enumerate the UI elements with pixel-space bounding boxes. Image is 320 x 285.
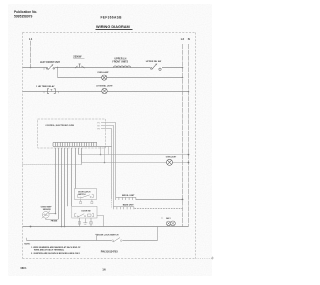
svg-text:DOOR SW: DOOR SW bbox=[82, 211, 91, 213]
svg-text:240 V: 240 V bbox=[166, 217, 171, 220]
frame border dashed bbox=[23, 33, 196, 259]
relay K1 contact bbox=[36, 85, 59, 93]
connector drop wires left bbox=[56, 148, 82, 227]
node L2 bbox=[181, 37, 185, 227]
sensor RT1 oven sensor bbox=[41, 207, 59, 223]
lamp DS1 bbox=[97, 71, 109, 80]
lamp DS2 bbox=[96, 84, 113, 93]
bake feed dashes bbox=[111, 200, 113, 208]
publication number text bbox=[14, 10, 37, 18]
svg-text:5995358979: 5995358979 bbox=[14, 14, 33, 18]
wire W5 bbox=[79, 154, 190, 156]
connector J1 comb bbox=[53, 143, 112, 147]
comb right drop wires bbox=[101, 147, 109, 163]
wire W2 second row bbox=[58, 77, 183, 79]
svg-text:UPPER RH SW: UPPER RH SW bbox=[146, 61, 162, 63]
box B1 latch switch block bbox=[75, 189, 97, 204]
box B2 door switch block bbox=[72, 206, 104, 226]
svg-text:SWITCH: SWITCH bbox=[78, 194, 86, 196]
svg-text:FEF366ASB: FEF366ASB bbox=[101, 16, 123, 20]
svg-text:WIRING DIAGRAM: WIRING DIAGRAM bbox=[96, 25, 130, 29]
svg-text:N: N bbox=[188, 37, 190, 41]
wire W1 top row bbox=[23, 67, 183, 69]
junction W1/L2 bbox=[182, 67, 184, 69]
svg-text:UPPER LH: UPPER LH bbox=[115, 59, 127, 61]
svg-text:BROIL UNIT: BROIL UNIT bbox=[122, 195, 135, 197]
svg-text:*: * bbox=[162, 217, 163, 220]
cut line extension bbox=[196, 258, 213, 260]
pin labels bbox=[98, 122, 100, 130]
wire W7 bottom row bbox=[23, 226, 189, 228]
svg-text:SENSOR: SENSOR bbox=[43, 209, 51, 211]
element E1 small surface unit bbox=[73, 55, 84, 69]
svg-text:2350W: 2350W bbox=[73, 55, 82, 59]
element E3 broil bbox=[116, 195, 184, 201]
svg-text:FRONT UNITS: FRONT UNITS bbox=[112, 62, 128, 64]
scan noise overlay bbox=[8, 4, 212, 276]
EOC control box U1 bbox=[38, 119, 106, 148]
svg-text:LEFT FRONT UNIT: LEFT FRONT UNIT bbox=[40, 62, 60, 64]
switch S1 surface unit switch bbox=[40, 62, 60, 70]
svg-text:L2: L2 bbox=[181, 37, 185, 41]
svg-text:1. WIRE NUMBERS ARE MARKED AT: 1. WIRE NUMBERS ARE MARKED AT EACH END O… bbox=[31, 246, 81, 249]
element coil E2 rear unit bbox=[112, 59, 130, 68]
svg-text:* DOOR LOCK SWITCH: * DOOR LOCK SWITCH bbox=[96, 235, 119, 237]
node L1 bbox=[29, 37, 33, 68]
svg-text:OVEN LAMP: OVEN LAMP bbox=[97, 71, 109, 74]
node N bbox=[188, 37, 190, 227]
title WIRING DIAGRAM bbox=[96, 25, 133, 30]
wire W3 third row bbox=[23, 91, 189, 93]
door switch loop W8 bbox=[27, 227, 158, 243]
twin indicator lamps bbox=[162, 217, 176, 226]
svg-text:1 HR TIME DELAY: 1 HR TIME DELAY bbox=[36, 85, 55, 88]
svg-text:BAKE UNIT: BAKE UNIT bbox=[123, 203, 135, 206]
svg-text:CONTROL, ELECTRONIC OVEN: CONTROL, ELECTRONIC OVEN bbox=[45, 125, 74, 127]
svg-text:NOTE:: NOTE: bbox=[24, 244, 30, 246]
svg-text:P/N 316134703: P/N 316134703 bbox=[101, 251, 119, 254]
notes text bbox=[24, 244, 118, 255]
wire W6 oven light row bbox=[23, 162, 190, 165]
lamp DS3 oven light bbox=[166, 157, 177, 166]
box right exit wires bbox=[101, 123, 116, 208]
svg-text:08C1: 08C1 bbox=[21, 267, 28, 270]
registration tick bbox=[211, 257, 214, 260]
element E4 bake bbox=[114, 203, 183, 209]
svg-text:2. JUMPERS ARE SHOWN IN BROKEN: 2. JUMPERS ARE SHOWN IN BROKEN LINES ONL… bbox=[31, 252, 81, 255]
ground symbol under B2 bbox=[83, 219, 87, 225]
svg-text:OVEN LIGHT: OVEN LIGHT bbox=[166, 157, 177, 159]
svg-text:LH SIGNAL LIGHT: LH SIGNAL LIGHT bbox=[96, 84, 113, 87]
switch S2 surface unit switch bbox=[146, 61, 162, 71]
svg-text:P2: P2 bbox=[98, 125, 100, 127]
svg-text:P3: P3 bbox=[98, 128, 100, 130]
svg-text:L1: L1 bbox=[29, 37, 33, 41]
riser W1 to W2 bbox=[57, 68, 59, 78]
svg-text:P1: P1 bbox=[98, 122, 100, 124]
svg-text:WIRE AND AT EACH TERMINAL: WIRE AND AT EACH TERMINAL bbox=[34, 249, 65, 252]
footer page marks bbox=[21, 267, 106, 272]
svg-text:16: 16 bbox=[102, 268, 106, 272]
svg-text:PROBE: PROBE bbox=[51, 221, 58, 223]
